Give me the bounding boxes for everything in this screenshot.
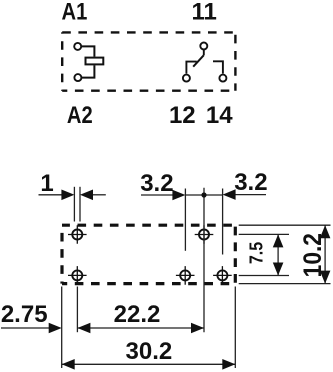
wire coil to A2 <box>82 65 95 77</box>
extension line pin width right <box>79 187 81 222</box>
extension line top hole row <box>239 233 289 235</box>
extension line body top edge right <box>239 224 331 226</box>
extension lines <box>62 187 331 368</box>
extension line body bottom edge right <box>239 283 331 285</box>
dashed box top edge <box>62 31 235 33</box>
extension line pin 14 <box>222 189 224 255</box>
svg-text:14: 14 <box>206 102 233 129</box>
dimension 2.75 <box>1 327 51 329</box>
svg-text:12: 12 <box>169 102 196 129</box>
footprint left edge <box>60 225 63 283</box>
mounting hole A2 (bottom-left) <box>68 266 87 285</box>
changeover contact (11-12-14) <box>183 43 227 82</box>
extension line body left edge <box>61 287 63 369</box>
contact stem from 11 <box>203 50 205 56</box>
arrow dim7.5 up <box>273 234 284 247</box>
svg-text:7.5: 7.5 <box>246 241 267 264</box>
arrow dim2.75 <box>49 323 62 334</box>
terminal circle A2 <box>74 74 81 81</box>
svg-text:22.2: 22.2 <box>114 301 161 328</box>
NO contact leg to 14 <box>213 61 223 73</box>
arrow dim3.2 right <box>223 189 236 200</box>
extension line pin 11 <box>203 188 205 333</box>
terminal circle 12 <box>183 75 190 82</box>
relay footprint dashed outline <box>62 225 235 283</box>
extension line pin A2 <box>76 287 78 333</box>
dimension 1 (pin width) <box>39 194 106 196</box>
extension line pin 12 <box>184 189 186 251</box>
dimension 30.2 <box>62 363 236 365</box>
footprint top edge <box>62 224 235 227</box>
svg-text:10.2: 10.2 <box>299 233 327 277</box>
mounting hole 12 (bottom-middle) <box>176 266 195 285</box>
relay outline dashed box (schematic) <box>62 32 235 90</box>
arrow dim1 right <box>80 190 93 201</box>
arrow dim1 left <box>61 190 74 201</box>
svg-text:A1: A1 <box>62 0 88 25</box>
NC contact leg to 12 <box>186 62 196 74</box>
dimension 3.2 left lead <box>141 194 266 196</box>
mounting hole 14 (bottom-right) <box>213 266 232 285</box>
dimension 22.2 <box>77 327 204 329</box>
junction dot on dimension line <box>201 192 206 197</box>
footprint right edge <box>234 225 237 283</box>
mounting hole 11 (top-right) <box>195 225 214 244</box>
svg-text:11: 11 <box>192 0 217 25</box>
dimension 10.2 <box>324 225 326 283</box>
svg-text:1: 1 <box>40 170 53 197</box>
terminal circle A1 <box>74 43 81 50</box>
footprint bottom edge <box>62 282 235 285</box>
svg-text:3.2: 3.2 <box>140 170 173 197</box>
arrow dim22.2 left <box>77 323 90 334</box>
svg-text:2.75: 2.75 <box>1 301 48 328</box>
mounting hole A1 (top-left) <box>68 225 87 244</box>
dashed box right edge <box>234 32 236 90</box>
arrow dim3.2 left <box>172 190 185 201</box>
terminal circle 11 <box>200 43 207 50</box>
extension line pin width left <box>73 187 75 222</box>
arrow dim30.2 left <box>62 359 75 370</box>
coil K1 (terminals A1-A2) <box>74 43 103 81</box>
svg-text:3.2: 3.2 <box>234 169 267 196</box>
movable contact arm <box>193 55 204 66</box>
arrow dim7.5 down <box>273 263 284 276</box>
arrow dim30.2 right <box>222 359 235 370</box>
dashed box left edge <box>61 32 63 90</box>
dashed box bottom edge <box>62 89 235 91</box>
terminal circle 14 <box>219 75 226 82</box>
dimension 7.5 <box>277 234 279 275</box>
extension line body right edge <box>234 287 236 369</box>
svg-text:A2: A2 <box>67 101 93 128</box>
arrow dim22.2 right <box>191 323 204 334</box>
svg-text:30.2: 30.2 <box>126 338 173 365</box>
coil winding rectangle <box>86 58 104 65</box>
extension line bottom hole row <box>239 275 289 277</box>
arrow dim10.2 up <box>320 225 331 238</box>
wire A1 to coil <box>81 46 94 56</box>
arrow dim10.2 down <box>320 271 331 284</box>
